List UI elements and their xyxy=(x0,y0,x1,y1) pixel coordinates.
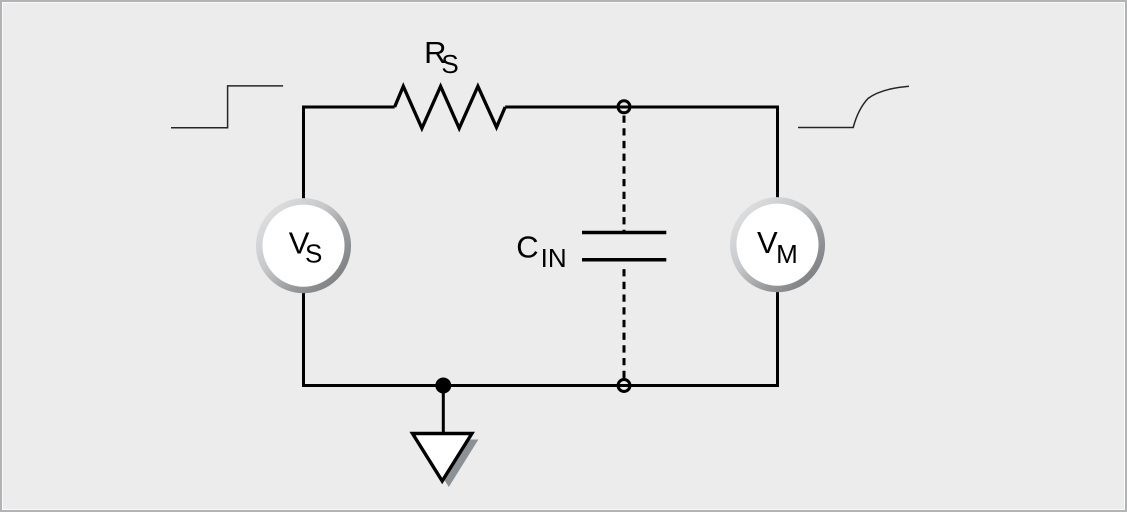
wire top right segment xyxy=(505,106,777,109)
wire top left segment xyxy=(304,106,395,109)
ground symbol shadow xyxy=(419,440,478,488)
output exponential waveform xyxy=(798,86,909,127)
source VS circle xyxy=(259,201,348,290)
svg-text:M: M xyxy=(776,239,798,269)
svg-text:S: S xyxy=(441,49,458,79)
label RS xyxy=(424,35,459,79)
svg-text:S: S xyxy=(305,239,322,269)
capacitor CIN plates xyxy=(582,233,666,260)
dashed wire upper xyxy=(623,116,626,233)
node bottom (open terminal) xyxy=(618,380,630,392)
wire left vertical xyxy=(302,106,305,388)
wire right vertical xyxy=(776,106,779,388)
ground symbol xyxy=(413,434,472,482)
meter VM circle xyxy=(733,200,822,289)
svg-text:V: V xyxy=(757,225,778,260)
label VS xyxy=(289,226,323,269)
label CIN xyxy=(516,230,566,274)
node top (open terminal) xyxy=(618,101,630,113)
svg-text:IN: IN xyxy=(541,243,567,273)
label VM xyxy=(757,225,798,269)
resistor RS xyxy=(395,86,506,128)
junction dot (ground node) xyxy=(435,378,451,394)
dashed wire lower xyxy=(623,269,626,378)
svg-text:C: C xyxy=(516,230,538,265)
wire bottom xyxy=(304,384,778,387)
ground lead wire xyxy=(442,386,445,435)
input step waveform xyxy=(171,86,283,128)
